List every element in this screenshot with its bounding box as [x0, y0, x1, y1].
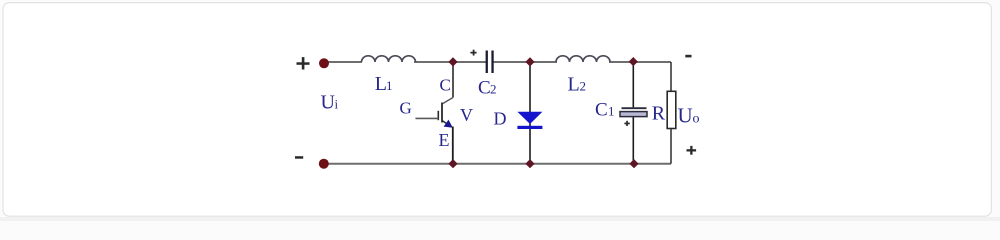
svg-text:V: V [460, 105, 473, 125]
svg-text:L: L [568, 74, 580, 96]
svg-text:i: i [335, 97, 339, 112]
svg-text:U: U [321, 92, 336, 114]
svg-text:C: C [440, 76, 451, 95]
svg-text:1: 1 [386, 78, 393, 93]
svg-text:1: 1 [608, 104, 615, 119]
svg-text:E: E [439, 130, 450, 150]
svg-text:2: 2 [490, 82, 497, 97]
svg-text:C: C [478, 78, 491, 99]
svg-text:G: G [400, 99, 412, 118]
svg-text:C: C [595, 100, 608, 121]
svg-text:2: 2 [580, 79, 587, 94]
svg-text:D: D [494, 109, 507, 129]
svg-text:R: R [652, 103, 666, 125]
svg-text:o: o [693, 112, 700, 127]
svg-text:U: U [678, 104, 693, 128]
